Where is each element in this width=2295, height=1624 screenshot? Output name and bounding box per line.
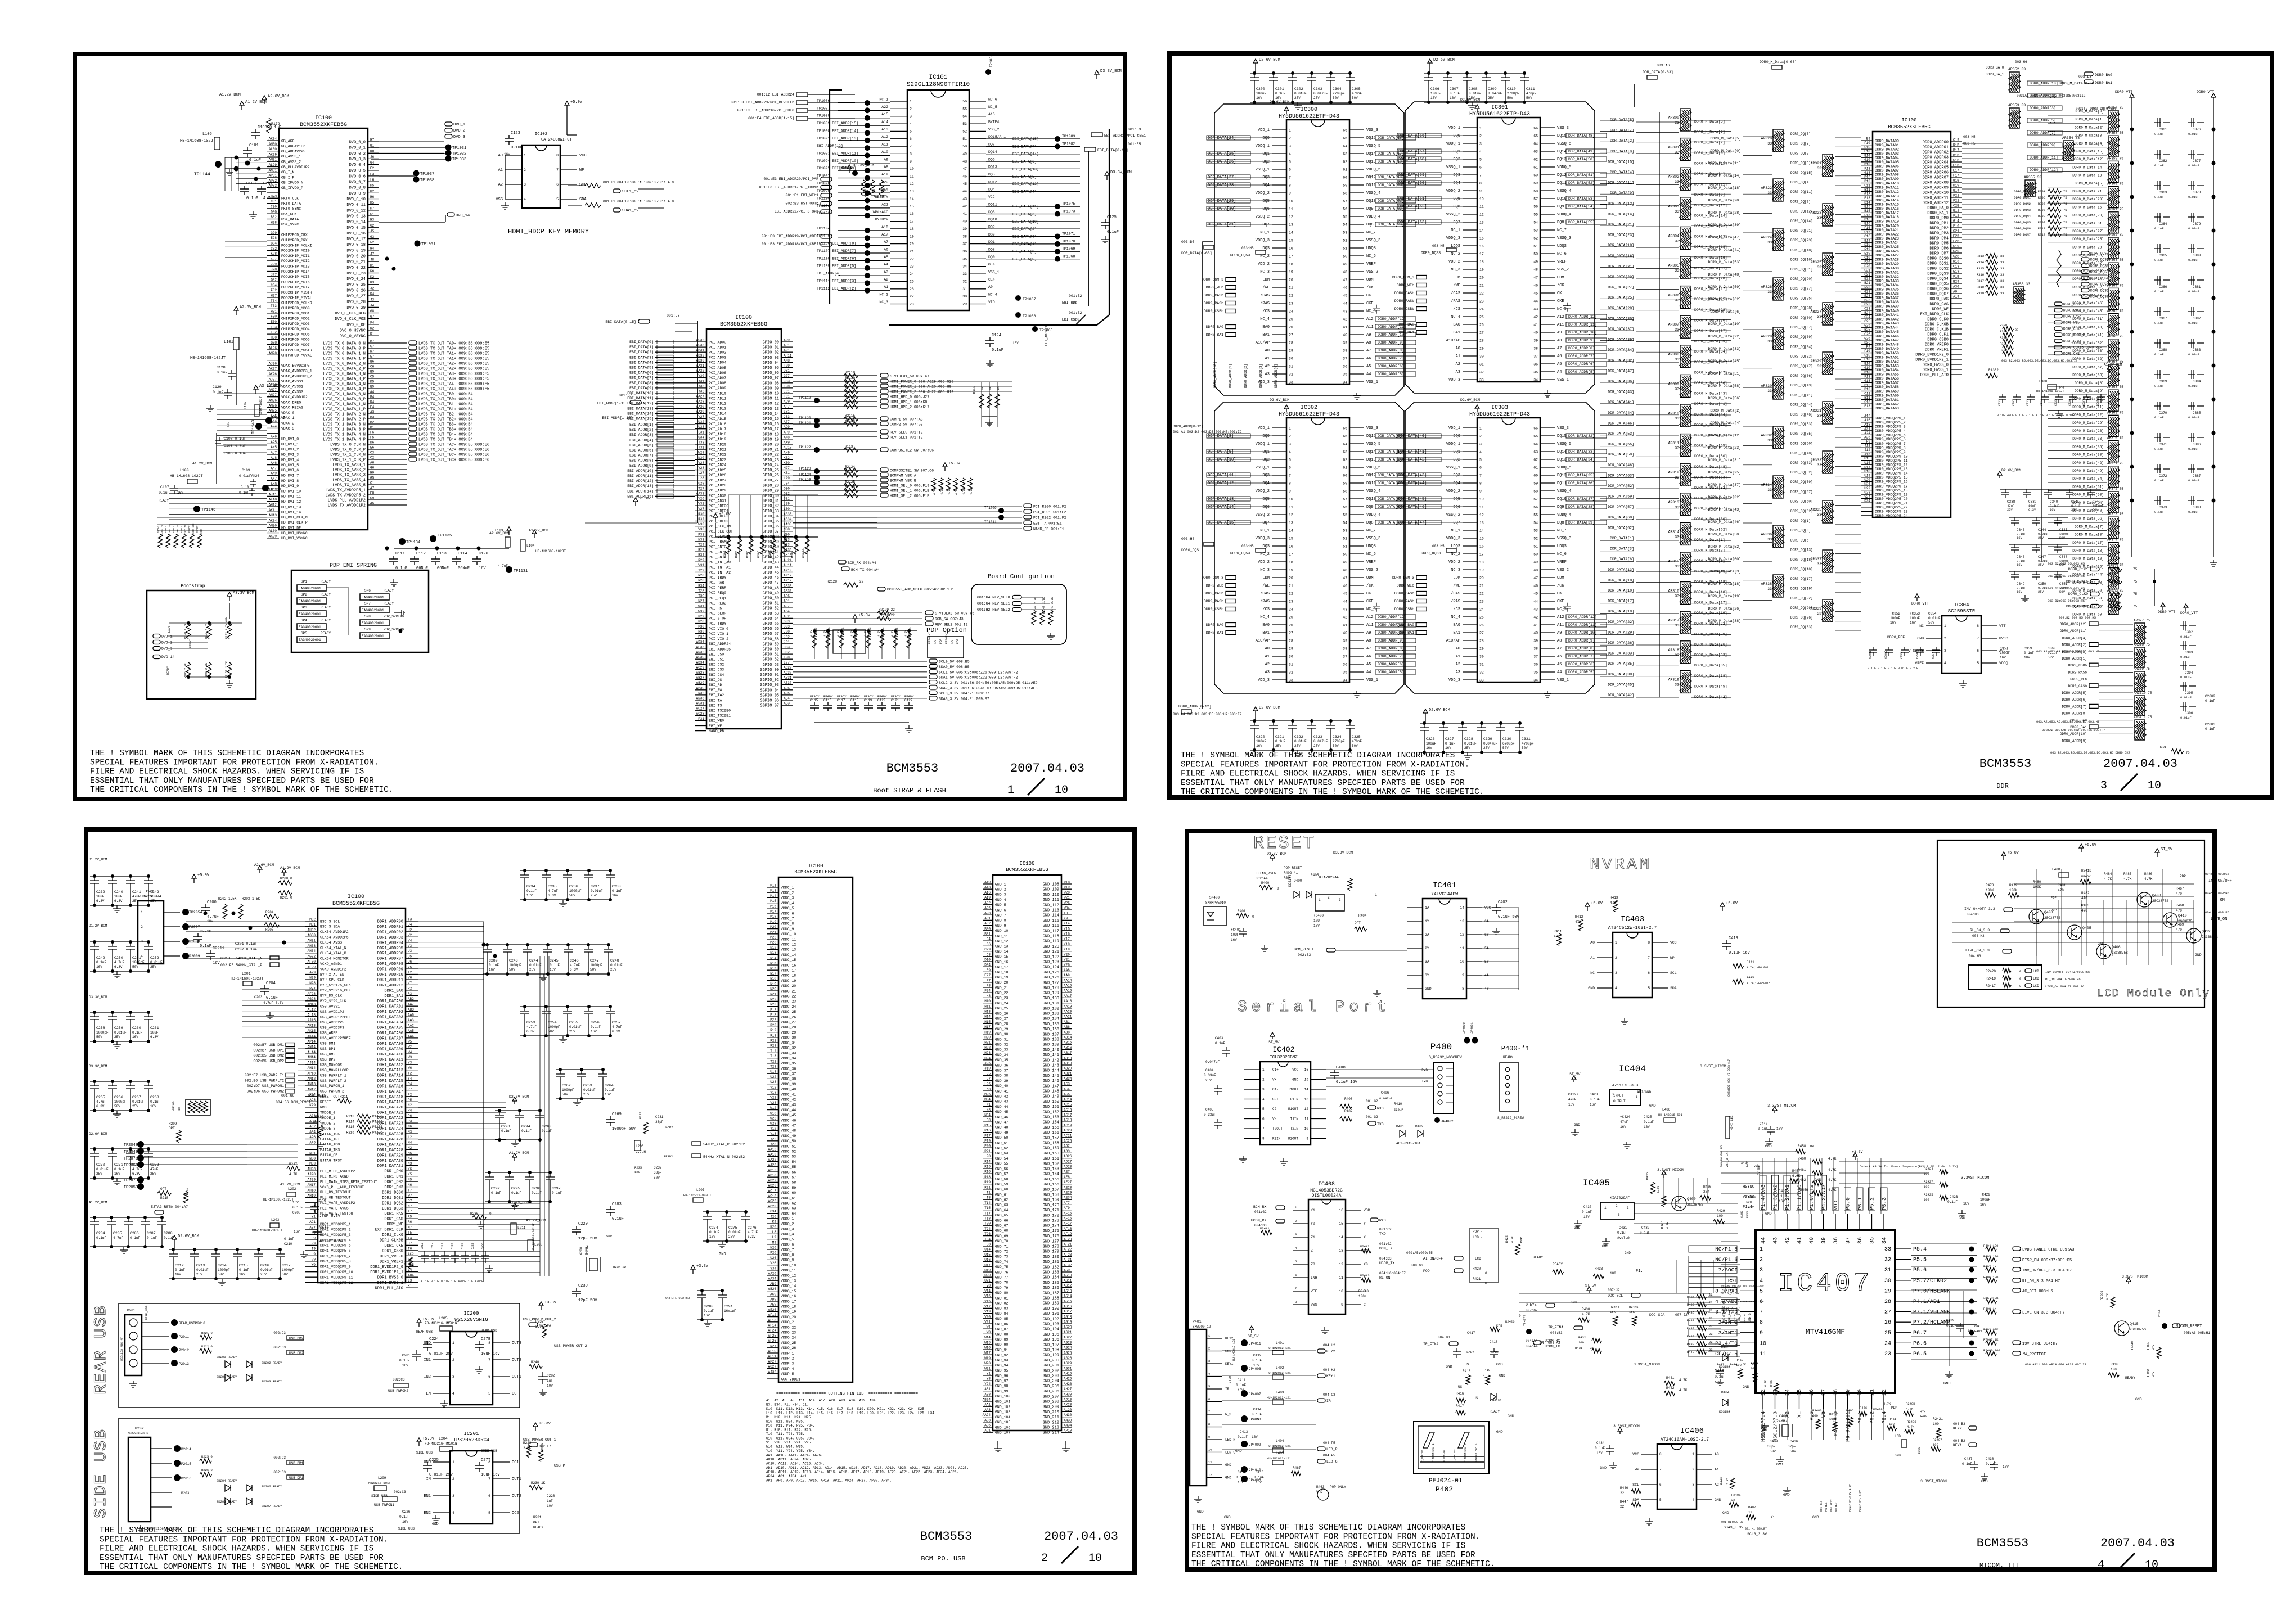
svg-text:V4: V4 (408, 939, 412, 942)
svg-text:GND_170: GND_170 (1043, 1203, 1059, 1208)
svg-text:D4: D4 (370, 400, 375, 404)
svg-text:1K: 1K (934, 640, 937, 644)
svg-text:AA12: AA12 (768, 1148, 777, 1152)
svg-text:DDR0_DATA04: DDR0_DATA04 (1875, 156, 1899, 160)
svg-text:C2211: C2211 (213, 946, 224, 951)
svg-text:DDR0_VDDQ2P5_4: DDR0_VDDQ2P5_4 (1875, 429, 1906, 433)
svg-text:AJ29: AJ29 (308, 1178, 316, 1182)
svg-text:R101 4.7K: R101 4.7K (205, 624, 208, 639)
svg-text:DDR0_DQ[34]: DDR0_DQ[34] (1790, 345, 1813, 349)
svg-text:N29: N29 (309, 976, 316, 980)
svg-text:LVDS_TX_1_DATA_0_P: LVDS_TX_1_DATA_0_P (323, 398, 366, 402)
svg-text:DDR1_DATA18: DDR1_DATA18 (377, 1095, 403, 1099)
svg-text:P5: P5 (408, 1098, 412, 1102)
svg-text:16V: 16V (177, 491, 183, 495)
IC IC301 HY5DU561622ETP-D43 DDR SDRAM (1392, 98, 1606, 397)
svg-text:AF5: AF5 (309, 1140, 316, 1144)
svg-text:003:H5: 003:H5 (1963, 142, 1975, 146)
svg-text:SCL1_5V 005:C3:006:Z26:009:D2:: SCL1_5V 005:C3:006:Z26:009:D2:009:F2 (939, 670, 1018, 674)
svg-text:16V: 16V (175, 1273, 181, 1276)
svg-text:AH27: AH27 (1064, 1387, 1072, 1391)
svg-text:DDR0_CAS: DDR0_CAS (1929, 303, 1948, 307)
svg-text:NVRAM: NVRAM (1590, 855, 1651, 874)
svg-text:GND: GND (424, 1460, 431, 1465)
svg-text:58: 58 (1533, 490, 1538, 494)
svg-text:EBI_DATA[2]: EBI_DATA[2] (629, 350, 654, 354)
svg-text:GND_15: GND_15 (995, 955, 1009, 959)
svg-text:EBI_ADDR[8]: EBI_ADDR[8] (629, 459, 654, 463)
svg-text:DDR0_RASb: DDR0_RASb (1394, 299, 1414, 303)
svg-text:BA1: BA1 (1262, 333, 1270, 337)
svg-text:33: 33 (2015, 328, 2018, 332)
svg-text:DDR1_VDDQ2P5_5: DDR1_VDDQ2P5_5 (320, 1244, 351, 1248)
wire bundles DDR chips to AR packs (1600, 112, 1659, 697)
svg-text:GND_19: GND_19 (995, 976, 1009, 980)
svg-text:DVO_0_18: DVO_0_18 (346, 243, 366, 247)
svg-text:C235: C235 (548, 885, 557, 888)
svg-text:DDR0_DQS7: DDR0_DQS7 (1927, 292, 1948, 297)
svg-text:41: 41 (1533, 624, 1538, 628)
svg-text:DDR1_ADDR01: DDR1_ADDR01 (377, 925, 403, 930)
svg-text:U6: U6 (408, 960, 412, 964)
svg-text:DDR_DATA[57]: DDR_DATA[57] (1608, 505, 1634, 509)
svg-text:DQ8: DQ8 (1557, 521, 1564, 525)
svg-text:G28: G28 (271, 341, 277, 345)
svg-text:GND_22: GND_22 (995, 991, 1009, 995)
svg-text:1000pF: 1000pF (590, 963, 602, 967)
svg-text:47uF: 47uF (2007, 504, 2014, 508)
svg-text:EBI_ADDR[9]: EBI_ADDR[9] (629, 464, 654, 468)
svg-text:G23: G23 (1864, 303, 1870, 306)
svg-text:AR377 75: AR377 75 (2134, 619, 2150, 622)
svg-text:VDDC_45: VDDC_45 (781, 1113, 796, 1117)
svg-text:DDR0_DQ[18]: DDR0_DQ[18] (1790, 248, 1813, 252)
svg-text:A8: A8 (884, 165, 888, 169)
svg-text:DDR0_M_Data[37]: DDR0_M_Data[37] (2072, 261, 2104, 265)
svg-text:DDR0_VDDQ2P5_7: DDR0_VDDQ2P5_7 (1875, 442, 1906, 446)
svg-text:001:E3 EBI_ADDR21/PCI_IRDYb: 001:E3 EBI_ADDR21/PCI_IRDYb (759, 186, 818, 190)
svg-text:48: 48 (1533, 569, 1538, 572)
wire HDMI power rails (889, 381, 1012, 427)
svg-text:EBI_ADDR[3]: EBI_ADDR[3] (629, 433, 654, 437)
svg-text:DQ5: DQ5 (988, 173, 995, 177)
svg-text:B9: B9 (1866, 137, 1871, 141)
svg-text:F7: F7 (987, 978, 991, 982)
svg-text:C287: C287 (147, 1231, 156, 1235)
svg-text:12: 12 (1289, 513, 1293, 517)
svg-text:A1: A1 (884, 285, 888, 289)
svg-text:C240: C240 (114, 890, 123, 894)
svg-text:DDR: DDR (1996, 782, 2009, 790)
svg-text:C117: C117 (837, 698, 845, 702)
svg-text:4.7uF: 4.7uF (612, 1025, 622, 1029)
svg-text:DDR0_ADDR[12]: DDR0_ADDR[12] (1378, 615, 1406, 619)
svg-text:13: 13 (1289, 223, 1293, 227)
svg-text:PLL_VAFE_AVSS: PLL_VAFE_AVSS (320, 1207, 349, 1211)
svg-text:R1. R10. R11. R24. R25.: R1. R10. R11. R24. R25. (766, 1428, 813, 1432)
svg-text:BCM3552XKFEB5G: BCM3552XKFEB5G (1888, 124, 1930, 130)
svg-text:HY5DU561622ETP-D43: HY5DU561622ETP-D43 (1279, 114, 1339, 120)
svg-text:DDR0_M_Data[54]: DDR0_M_Data[54] (2072, 477, 2104, 481)
svg-text:IC100: IC100 (1019, 861, 1034, 867)
svg-text:DDR0_DATA40: DDR0_DATA40 (1875, 309, 1899, 313)
svg-text:VDD_1: VDD_1 (1448, 426, 1460, 431)
svg-text:L28: L28 (698, 476, 704, 480)
svg-text:DDR1_VDDQ2P5_6: DDR1_VDDQ2P5_6 (320, 1249, 351, 1253)
svg-text:GPIO_39: GPIO_39 (763, 540, 779, 544)
svg-text:DDR0_ADDR[10]: DDR0_ADDR[10] (2029, 82, 2058, 85)
svg-text:DQ4: DQ4 (1262, 481, 1270, 486)
svg-text:K10. K11. K12. K13. K14. K15.: K10. K11. K12. K13. K14. K15. K16. K17. … (766, 1407, 926, 1411)
svg-text:DDR_DATA[18]: DDR_DATA[18] (1608, 243, 1634, 247)
svg-text:R221 0: R221 0 (201, 1331, 213, 1335)
svg-text:DDR0_M_Data[2]: DDR0_M_Data[2] (2074, 125, 2104, 129)
svg-text:GND_40: GND_40 (995, 1084, 1009, 1088)
svg-text:DDR1_DATA19: DDR1_DATA19 (377, 1100, 403, 1105)
svg-text:GND: GND (432, 1522, 439, 1526)
svg-text:HD_DVI_2: HD_DVI_2 (281, 448, 299, 452)
svg-text:A21: A21 (1864, 427, 1870, 431)
svg-text:C348: C348 (2059, 555, 2068, 559)
svg-text:A18: A18 (1864, 423, 1870, 427)
svg-text:DDR_DATA[48]: DDR_DATA[48] (1608, 463, 1634, 467)
svg-text:EBI_DATA[9]: EBI_DATA[9] (629, 386, 654, 390)
svg-text:25V: 25V (150, 899, 156, 903)
svg-text:0.01uF: 0.01uF (2188, 195, 2199, 199)
svg-text:T5: T5 (408, 1231, 412, 1235)
svg-text:R231: R231 (533, 1515, 542, 1519)
svg-text:29: 29 (1289, 647, 1293, 651)
svg-text:EBI_TA2: EBI_TA2 (709, 693, 724, 697)
svg-text:SP5: SP5 (301, 631, 307, 635)
svg-text:G9: G9 (370, 497, 375, 500)
svg-text:C388: C388 (2193, 506, 2201, 509)
svg-text:47: 47 (1343, 278, 1347, 282)
svg-text:EAG40029601: EAG40029601 (299, 599, 321, 603)
svg-text:IN: IN (426, 1477, 431, 1482)
svg-text:A7: A7 (370, 486, 375, 490)
svg-text:A3.3V_BCM: A3.3V_BCM (233, 591, 254, 596)
svg-text:VDDC_9: VDDC_9 (781, 927, 794, 931)
svg-text:CK: CK (1366, 592, 1371, 596)
IC IC100 BCM3552XKFEB5G (clock/usb/ddr pins) (305, 894, 418, 1291)
svg-text:EBI_ADDR17/PCI_CBE1: EBI_ADDR17/PCI_CBE1 (1104, 134, 1146, 138)
svg-text:R112: R112 (845, 470, 853, 474)
svg-text:DDR0_M_Data[21]: DDR0_M_Data[21] (2072, 190, 2104, 193)
svg-text:6Y: 6Y (1484, 933, 1489, 937)
svg-text:VDDQ_1: VDDQ_1 (1255, 442, 1270, 446)
svg-text:DDR_DATA[50]: DDR_DATA[50] (1568, 157, 1595, 161)
svg-text:9: 9 (910, 160, 912, 164)
svg-text:GND_182: GND_182 (1043, 1265, 1059, 1270)
svg-text:AG15: AG15 (1064, 1300, 1072, 1303)
svg-text:R213: R213 (346, 1115, 355, 1118)
svg-text:36: 36 (1533, 363, 1538, 367)
svg-text:R200 0: R200 0 (280, 877, 292, 881)
svg-text:VDD_1: VDD_1 (1258, 128, 1270, 133)
svg-text:32: 32 (1289, 373, 1293, 377)
svg-text:DQ1: DQ1 (1453, 150, 1460, 154)
svg-text:AL20: AL20 (1064, 1408, 1072, 1412)
svg-text:DDR0_DATA54: DDR0_DATA54 (1875, 368, 1899, 372)
svg-text:DDR0_M_Data[43]: DDR0_M_Data[43] (1708, 508, 1741, 512)
svg-text:13: 13 (1289, 521, 1293, 525)
svg-text:USB_AVDD1P2: USB_AVDD1P2 (320, 1010, 344, 1014)
svg-text:C115: C115 (810, 698, 818, 702)
svg-text:4: 4 (1289, 450, 1291, 454)
svg-text:AD34: AD34 (696, 661, 705, 665)
svg-text:SCL3_3.3V 004:F1:009:B7: SCL3_3.3V 004:F1:009:B7 (939, 692, 989, 696)
svg-text:AD1: AD1 (984, 1429, 991, 1433)
svg-text:G25: G25 (1864, 324, 1870, 328)
svg-text:DQ3: DQ3 (1262, 473, 1270, 478)
svg-text:GND_203: GND_203 (1043, 1374, 1059, 1379)
svg-text:VDDO_13: VDDO_13 (781, 1279, 796, 1283)
svg-text:16V: 16V (489, 968, 495, 972)
svg-text:DQ14: DQ14 (1557, 450, 1567, 454)
svg-text:17: 17 (1479, 252, 1484, 256)
svg-text:GND_108: GND_108 (1043, 883, 1059, 887)
IC407 bottom left labels (1721, 1484, 1862, 1536)
svg-text:75: 75 (2186, 751, 2190, 755)
svg-text:BYP_SYS175_CLK: BYP_SYS175_CLK (320, 984, 351, 987)
svg-text:0.1uF: 0.1uF (130, 1236, 140, 1240)
svg-text:33: 33 (1675, 121, 1679, 125)
svg-text:DDR0_M_Data[9]: DDR0_M_Data[9] (2074, 389, 2104, 393)
svg-text:RY/BY#: RY/BY# (875, 218, 889, 222)
svg-text:DDR0_M_Data[31]: DDR0_M_Data[31] (1694, 266, 1727, 270)
svg-text:A11: A11 (881, 143, 888, 147)
svg-text:60: 60 (1343, 176, 1347, 180)
svg-text:H4: H4 (370, 246, 375, 250)
svg-text:C114: C114 (458, 552, 467, 556)
svg-text:0.1uF: 0.1uF (1107, 230, 1119, 234)
svg-text:5: 5 (1289, 160, 1291, 164)
svg-text:OB_I_N: OB_I_N (281, 170, 295, 174)
svg-text:B12: B12 (1864, 175, 1870, 179)
svg-text:A15: A15 (881, 112, 888, 116)
svg-text:R2122: R2122 (845, 396, 855, 400)
svg-text:AG21: AG21 (1064, 1330, 1072, 1334)
svg-text:SP3: SP3 (301, 606, 307, 610)
svg-text:54: 54 (1343, 223, 1347, 227)
svg-text:G19: G19 (1953, 245, 1959, 249)
svg-text:DDR0_M_Data[16]: DDR0_M_Data[16] (2072, 205, 2104, 209)
svg-text:DDR1_BVDD1P2_1: DDR1_BVDD1P2_1 (370, 1270, 403, 1275)
svg-text:E13: E13 (1864, 196, 1870, 200)
svg-text:R195: R195 (745, 551, 749, 558)
svg-text:GPIO_22: GPIO_22 (763, 453, 779, 458)
svg-text:M3: M3 (408, 1130, 412, 1134)
svg-text:75: 75 (2133, 580, 2137, 584)
svg-text:AH13: AH13 (269, 513, 277, 517)
svg-text:57: 57 (1343, 498, 1347, 502)
svg-text:C221: C221 (461, 1243, 465, 1249)
svg-text:D2.6V_BCM: D2.6V_BCM (1259, 706, 1280, 710)
svg-text:VDDO_10: VDDO_10 (781, 1264, 796, 1267)
svg-text:DDR0_ADDR[8]: DDR0_ADDR[8] (2062, 712, 2087, 716)
svg-text:27: 27 (1289, 333, 1293, 337)
svg-text:C282: C282 (547, 1374, 555, 1378)
resistor network column AR320-AR339 (1761, 129, 1833, 622)
svg-text:DDR_DATA[32]: DDR_DATA[32] (1608, 359, 1634, 363)
inductor L202 L203 caps C208-C211 (252, 1183, 344, 1258)
svg-text:2: 2 (141, 925, 143, 929)
svg-text:GND_128: GND_128 (1043, 986, 1059, 991)
svg-text:J32: J32 (784, 635, 790, 639)
svg-text:43: 43 (1533, 608, 1538, 612)
svg-text:DDR0_M_Data[47]: DDR0_M_Data[47] (1708, 236, 1741, 240)
svg-text:DDR1_ADDR03: DDR1_ADDR03 (377, 936, 403, 940)
svg-text:62: 62 (1533, 458, 1538, 462)
svg-text:DDR0_M_Data[41]: DDR0_M_Data[41] (2072, 333, 2104, 337)
svg-text:GND_83: GND_83 (995, 1307, 1009, 1311)
svg-text:VTT: VTT (1999, 624, 2006, 628)
svg-text:Y17: Y17 (1064, 937, 1070, 941)
svg-text:GND_55: GND_55 (995, 1162, 1009, 1166)
svg-text:TP1093 EBI_ADDR[11]: TP1093 EBI_ADDR[11] (817, 151, 858, 155)
svg-text:DDR1_PLL_AIO: DDR1_PLL_AIO (375, 1287, 403, 1291)
svg-text:50V: 50V (1507, 96, 1513, 100)
svg-text:DDR1_ADDR07: DDR1_ADDR07 (377, 957, 403, 962)
svg-text:DDR0_DATA46: DDR0_DATA46 (1875, 335, 1899, 339)
svg-text:L10. L11. L12. L13. L14. L15.: L10. L11. L12. L13. L14. L15. L16. L17. … (766, 1411, 936, 1415)
svg-text:B6: B6 (370, 360, 375, 364)
svg-text:C107: C107 (160, 485, 169, 489)
svg-text:DDR0_M_Data[40]: DDR0_M_Data[40] (2072, 509, 2104, 513)
svg-text:DDR0_VDDQ2P5_11: DDR0_VDDQ2P5_11 (1875, 459, 1908, 463)
svg-text:DDR0_ADDR[0-12]: DDR0_ADDR[0-12] (1173, 425, 1203, 428)
svg-text:GND_163: GND_163 (1043, 1167, 1059, 1172)
svg-text:GND_121: GND_121 (1043, 950, 1059, 954)
svg-text:0.1uF: 0.1uF (2154, 321, 2164, 325)
svg-text:D2.6V_BCM: D2.6V_BCM (1270, 398, 1289, 402)
wire bundle P200 to IC100 (186, 921, 318, 1086)
svg-text:DDR0_M_Data[7]: DDR0_M_Data[7] (2074, 525, 2104, 529)
svg-text:LVDS_TX_1_DATA_2_P: LVDS_TX_1_DATA_2_P (323, 418, 366, 422)
EBI_DATA bus labels to IC100 (597, 314, 695, 498)
svg-text:PCI_INT_A0: PCI_INT_A0 (709, 561, 731, 565)
wire bundle IC407 bottom (1763, 1409, 1884, 1440)
svg-text:DQ10: DQ10 (1557, 497, 1567, 502)
svg-text:27: 27 (1479, 631, 1484, 635)
svg-text:GND_79: GND_79 (995, 1286, 1009, 1290)
svg-text:0.1uF 47uF 0.1uF 0.1uF 4.7uF 0: 0.1uF 47uF 0.1uF 0.1uF 4.7uF 0.1uF 470pF… (1997, 414, 2074, 417)
svg-text:D19: D19 (1953, 184, 1959, 188)
svg-text:GPIO_54: GPIO_54 (763, 617, 779, 621)
svg-text:U33: U33 (698, 425, 704, 429)
svg-text:B1B: B1B (1953, 179, 1959, 183)
svg-text:VDDC_21: VDDC_21 (781, 989, 796, 993)
svg-text:E19: E19 (1864, 251, 1870, 255)
svg-text:GND_95: GND_95 (995, 1369, 1009, 1373)
svg-text:DDR0_M_Data[53]: DDR0_M_Data[53] (1708, 260, 1741, 264)
svg-text:001:E2 EBI_ADDR24: 001:E2 EBI_ADDR24 (757, 93, 794, 97)
svg-text:DDR0_DATA53: DDR0_DATA53 (1875, 364, 1899, 368)
svg-text:C328: C328 (1464, 737, 1473, 741)
svg-text:17: 17 (1479, 553, 1484, 557)
svg-text:DDR0_ADDR[11]: DDR0_ADDR[11] (2029, 156, 2058, 160)
wire keypad bundles (1222, 1351, 1316, 1450)
svg-text:DQ13: DQ13 (1366, 160, 1376, 164)
svg-text:K31: K31 (784, 471, 790, 475)
svg-text:DDR0_DQM1: DDR0_DQM1 (2014, 196, 2031, 200)
svg-text:TP1146: TP1146 (201, 508, 215, 512)
svg-text:AE4: AE4 (784, 697, 790, 701)
svg-text:DDR0_BA_0: DDR0_BA_0 (1986, 66, 2004, 70)
svg-text:AR353 33: AR353 33 (2008, 103, 2026, 107)
svg-text:J15: J15 (1864, 453, 1870, 457)
right column DDR0_M_Data to AR357-AR376 (2072, 106, 2123, 617)
svg-text:DDR1_DATA06: DDR1_DATA06 (377, 1031, 403, 1036)
svg-text:GND_199: GND_199 (1043, 1354, 1059, 1358)
svg-text:G23: G23 (1864, 290, 1870, 294)
svg-text:C1B: C1B (1953, 159, 1959, 163)
svg-text:003:B2:003:B5:003:D2:003:D5:00: 003:B2:003:B5:003:D2:003:D5:003:H5 DDR0_… (2050, 751, 2131, 755)
svg-text:READY: READY (156, 525, 160, 533)
svg-text:001:E3 EBI_ADDR23/PCI_DEVSELb: 001:E3 EBI_ADDR23/PCI_DEVSELb (731, 101, 794, 105)
svg-text:DQ12: DQ12 (988, 180, 997, 184)
svg-text:W19: W19 (984, 1356, 991, 1360)
svg-text:DQ10: DQ10 (1557, 197, 1567, 201)
svg-text:DDR0_DQS3: DDR0_DQS3 (1421, 251, 1441, 255)
svg-text:A10: A10 (881, 150, 888, 154)
svg-text:AL26: AL26 (269, 346, 277, 350)
svg-text:J30: J30 (784, 630, 790, 634)
svg-text:25V: 25V (529, 968, 535, 972)
svg-text:DDR0_DATA33: DDR0_DATA33 (1875, 279, 1899, 283)
svg-text:C396: C396 (2185, 711, 2193, 715)
svg-text:VSSQ_4: VSSQ_4 (1557, 189, 1571, 193)
svg-text:N8: N8 (987, 1108, 991, 1112)
svg-text:GND_134: GND_134 (1043, 1017, 1059, 1022)
svg-text:BA0: BA0 (1453, 323, 1460, 327)
svg-text:AG12: AG12 (1064, 1284, 1072, 1288)
svg-text:K1: K1 (408, 1284, 412, 1288)
svg-text:J4: J4 (370, 304, 375, 308)
svg-text:R197: R197 (768, 551, 772, 558)
svg-text:UDQS: UDQS (1366, 246, 1376, 251)
svg-text:C311: C311 (1526, 87, 1535, 91)
svg-text:25V: 25V (1488, 96, 1494, 100)
svg-text:VDDO_23: VDDO_23 (781, 1331, 796, 1335)
svg-text:VDDC_38: VDDC_38 (781, 1077, 796, 1081)
svg-text:C343: C343 (2017, 528, 2025, 532)
svg-text:45: 45 (1343, 294, 1347, 298)
svg-text:TP1135: TP1135 (438, 534, 452, 538)
svg-text:TP1109 EBI_ADDR[5]: TP1109 EBI_ADDR[5] (817, 264, 856, 268)
svg-text:AA21: AA21 (1064, 1015, 1072, 1019)
svg-text:DQ10: DQ10 (988, 218, 997, 222)
svg-text:READY: READY (837, 694, 847, 698)
svg-text:003:D2:003:D5:003:H5: 003:D2:003:D5:003:H5 (2047, 574, 2085, 578)
svg-text:R111: R111 (972, 386, 976, 394)
I2C pullups DDC R434-R440 region (1525, 1284, 1721, 1354)
svg-text:VDDQ_4: VDDQ_4 (1366, 513, 1380, 517)
svg-text:GND_56: GND_56 (995, 1167, 1009, 1171)
svg-text:DDR0_M_Data[62]: DDR0_M_Data[62] (1708, 297, 1741, 301)
svg-text:DDR1_CAS: DDR1_CAS (384, 1217, 403, 1222)
svg-text:PCI_AD23: PCI_AD23 (709, 458, 726, 462)
svg-text:AB19: AB19 (1064, 1062, 1072, 1066)
svg-text:16V: 16V (605, 1093, 611, 1097)
svg-text:R204: R204 (265, 910, 274, 914)
svg-text:50V: 50V (1333, 96, 1339, 100)
svg-text:A2: A2 (1456, 362, 1460, 367)
svg-text:R225 0: R225 0 (201, 1455, 213, 1459)
svg-text:TP1088: TP1088 (817, 114, 830, 118)
svg-text:0.1uF: 0.1uF (612, 889, 622, 893)
